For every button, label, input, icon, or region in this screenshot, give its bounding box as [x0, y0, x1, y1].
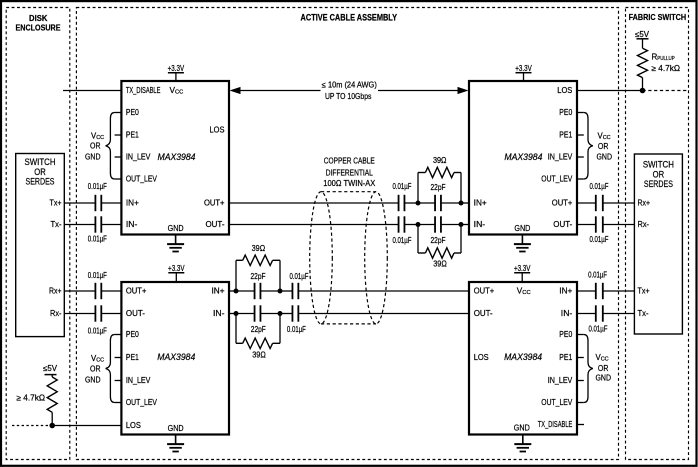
capacitor 0.01uF C7 (Rx+) [596, 195, 603, 211]
svg-text:22pF: 22pF [251, 325, 266, 334]
svg-text:IN+: IN+ [474, 199, 487, 208]
wire U4 OUT+ to C11 [299, 290, 470, 292]
U4 pin stub PE1 [577, 357, 584, 359]
wire U3 OUT+ to C15 [101, 290, 121, 292]
U4 pin stub PE0 [577, 334, 584, 336]
supply bar (top) [637, 38, 649, 40]
svg-text:+3.3V: +3.3V [515, 64, 532, 73]
copper cable bottom line [321, 323, 376, 325]
wire C1 to U1 IN+ [101, 202, 121, 204]
capacitor 22pF C13 [255, 283, 261, 299]
wire U1 OUT- to C4 [229, 224, 399, 226]
svg-text:OR: OR [34, 167, 46, 177]
svg-text:OR: OR [598, 142, 609, 151]
U2 pin stub OUT_LEV [577, 178, 584, 180]
U4 pin stub TX_DISABLE [577, 424, 584, 426]
svg-text:IN+: IN+ [212, 287, 225, 296]
node I junction [234, 311, 239, 316]
svg-text:39Ω: 39Ω [252, 244, 266, 253]
svg-text:OUT_LEV: OUT_LEV [541, 175, 572, 184]
svg-text:0.01µF: 0.01µF [588, 271, 607, 280]
wire U2 LOS to node E [577, 90, 643, 92]
wire C2 to U1 IN- [101, 224, 121, 226]
svg-text:OUT+: OUT+ [204, 199, 225, 208]
svg-text:GND: GND [168, 424, 184, 433]
wire TX_DISABLE input [63, 90, 121, 92]
label cable length [322, 81, 377, 101]
svg-text:SERDES: SERDES [644, 179, 673, 189]
svg-text:≥ 4.7kΩ: ≥ 4.7kΩ [17, 394, 46, 403]
ground U1 [167, 235, 184, 252]
label DISK ENCLOSURE [16, 13, 61, 32]
capacitor 0.01uF C11 (OUT+ line) [292, 283, 298, 299]
wire node D to U2 IN- [461, 224, 469, 226]
svg-text:IN_LEV: IN_LEV [548, 376, 573, 385]
U3 config brace [106, 335, 115, 403]
svg-text:+3.3V: +3.3V [168, 264, 185, 273]
U3 pin stub PE1 [115, 357, 122, 359]
wire Tx+ (left box to C1) [64, 202, 95, 204]
wire C14 to node I [236, 313, 254, 315]
svg-text:IN_LEV: IN_LEV [126, 376, 151, 385]
svg-text:0.01µF: 0.01µF [88, 235, 107, 244]
svg-text:SWITCH: SWITCH [643, 160, 674, 170]
wire node B to U2 IN+ [461, 202, 469, 204]
wire node F to C13 [261, 290, 280, 292]
U4 +3.3V supply [514, 264, 531, 282]
svg-text:OUT_LEV: OUT_LEV [541, 398, 572, 407]
svg-text:0.01µF: 0.01µF [590, 235, 609, 244]
svg-text:SWITCH: SWITCH [25, 157, 56, 167]
svg-text:+3.3V: +3.3V [168, 64, 185, 73]
svg-text:Tx+: Tx+ [50, 199, 62, 208]
U2 config brace [584, 113, 593, 180]
wire node A to C5 [418, 202, 435, 204]
svg-text:Tx-: Tx- [638, 309, 649, 318]
capacitor 0.01uF C4 (OUT- line) [399, 216, 405, 232]
svg-text:FABRIC SWITCH: FABRIC SWITCH [629, 12, 687, 22]
svg-text:PE0: PE0 [126, 108, 139, 117]
copper cable right ellipse [365, 192, 388, 324]
svg-text:GND: GND [168, 224, 184, 233]
svg-text:≤ 10m (24 AWG): ≤ 10m (24 AWG) [322, 81, 377, 90]
resistor R1 39ohm (across C5) [418, 167, 461, 203]
svg-text:0.01µF: 0.01µF [287, 325, 306, 334]
svg-text:0.01µF: 0.01µF [393, 182, 412, 191]
node B junction [459, 201, 464, 206]
svg-text:OR: OR [653, 169, 665, 179]
wire C15 to left box Rx+ [64, 290, 95, 292]
svg-text:GND: GND [514, 424, 530, 433]
svg-text:MAX3984: MAX3984 [157, 352, 195, 363]
U1 +3.3V supply [168, 64, 185, 81]
resistor R3 39ohm (across C13) [236, 255, 280, 291]
svg-text:Rx+: Rx+ [49, 287, 62, 296]
svg-text:PE0: PE0 [559, 330, 572, 339]
svg-text:ENCLOSURE: ENCLOSURE [16, 22, 61, 32]
svg-text:Tx+: Tx+ [638, 287, 650, 296]
capacitor 0.01uF C2 (Tx-) [95, 216, 101, 232]
svg-text:PE0: PE0 [559, 108, 572, 117]
svg-text:PE0: PE0 [126, 330, 139, 339]
U1 pin stub PE1 [115, 134, 122, 136]
ground U2 [514, 235, 531, 252]
svg-text:+3.3V: +3.3V [514, 264, 531, 273]
svg-text:OUT+: OUT+ [474, 287, 495, 296]
svg-text:Rx+: Rx+ [638, 199, 651, 208]
svg-text:PE1: PE1 [126, 131, 139, 140]
svg-text:OUT_LEV: OUT_LEV [126, 398, 157, 407]
svg-text:COPPER CABLE: COPPER CABLE [324, 157, 375, 166]
svg-text:0.01µF: 0.01µF [393, 236, 412, 245]
svg-text:PE1: PE1 [559, 131, 572, 140]
U3 pin stub IN_LEV [115, 380, 122, 382]
wire node I to U3 IN- [229, 313, 236, 315]
wire C3 to node A [405, 202, 419, 204]
wire C7 to right box Rx+ [603, 202, 635, 204]
capacitor 0.01uF C9 (Tx+) [596, 283, 603, 299]
wire C6 to node D [441, 224, 461, 226]
svg-text:PE1: PE1 [126, 353, 139, 362]
wire C8 to right box Rx- [603, 224, 635, 226]
svg-text:IN-: IN- [474, 220, 486, 229]
wire C11 to node F [280, 290, 292, 292]
svg-text:0.01µF: 0.01µF [290, 272, 309, 281]
resistor RPULLUP vertical [638, 39, 648, 91]
wire right box Tx+ to C9 [603, 290, 635, 292]
svg-text:OUT-: OUT- [553, 220, 572, 229]
capacitor 22pF C6 [435, 216, 441, 232]
svg-text:OUT-: OUT- [206, 220, 225, 229]
svg-text:IN-: IN- [213, 309, 225, 318]
wire C9 to U4 IN+ [577, 290, 596, 292]
capacitor 0.01uF C8 (Rx-) [596, 216, 603, 232]
svg-text:OR: OR [90, 142, 101, 151]
svg-text:LOS: LOS [210, 126, 225, 135]
wire C4 to node C [405, 224, 419, 226]
cable length arrow line [240, 90, 458, 92]
fabric switch boundary (dashed) [626, 8, 689, 460]
ground U4 [514, 435, 531, 452]
svg-text:0.01µF: 0.01µF [589, 325, 608, 334]
svg-text:≤5V: ≤5V [635, 30, 650, 39]
node H junction [278, 311, 283, 316]
wire right box Tx- to C10 [603, 313, 635, 315]
arrowhead right [458, 87, 469, 94]
supply bar (bottom) [45, 374, 57, 376]
node J junction [49, 423, 55, 429]
svg-text:≤5V: ≤5V [43, 364, 58, 373]
IC U3 MAX3984 (bottom-left) [121, 282, 229, 435]
capacitor 22pF C14 [255, 305, 261, 321]
wire Tx- (left box to C2) [64, 224, 95, 226]
svg-text:IN-: IN- [561, 309, 573, 318]
label copper cable [323, 157, 376, 188]
capacitor 0.01uF C10 (Tx-) [596, 305, 603, 321]
wire C10 to U4 IN- [577, 313, 596, 315]
capacitor 0.01uF C16 (Rx-) [95, 305, 101, 321]
U4 brace label VCC OR GND [596, 353, 612, 383]
svg-text:MAX3984: MAX3984 [158, 152, 196, 163]
left switch/serdes box [16, 154, 65, 337]
U2 +3.3V supply [515, 64, 532, 81]
svg-text:SERDES: SERDES [26, 177, 55, 187]
node D junction [459, 222, 464, 227]
svg-text:22pF: 22pF [431, 183, 446, 192]
U3 pin stub OUT_LEV [115, 402, 122, 404]
U4 pin stub OUT_LEV [577, 402, 584, 404]
wire U4 OUT- to C12 [299, 313, 470, 315]
svg-text:100Ω TWIN-AX: 100Ω TWIN-AX [323, 179, 376, 188]
ground U3 [167, 435, 184, 452]
svg-text:ACTIVE CABLE ASSEMBLY: ACTIVE CABLE ASSEMBLY [301, 12, 398, 22]
svg-text:39Ω: 39Ω [252, 351, 266, 360]
svg-text:OR: OR [90, 364, 101, 373]
U3 +3.3V supply [168, 264, 185, 282]
node E junction [640, 88, 646, 94]
svg-text:OR: OR [598, 364, 609, 373]
U3 pin stub PE0 [115, 334, 122, 336]
wire U1 OUT+ to C3 [229, 202, 399, 204]
capacitor 0.01uF C15 (Rx+) [95, 283, 101, 299]
U4 config brace [584, 335, 593, 403]
resistor R2 39ohm (across C6) [418, 225, 461, 259]
svg-text:Rx-: Rx- [50, 309, 62, 318]
svg-text:TX_DISABLE: TX_DISABLE [538, 420, 573, 429]
left box label [25, 157, 56, 187]
svg-text:OUT-: OUT- [474, 309, 493, 318]
svg-text:0.01µF: 0.01µF [88, 271, 107, 280]
U2 brace label VCC OR GND [597, 131, 613, 161]
svg-text:UP TO 10Gbps: UP TO 10Gbps [325, 92, 372, 101]
svg-text:IN-: IN- [126, 220, 138, 229]
IC U1 MAX3984 (top-left) [121, 81, 229, 235]
svg-text:DIFFERENTIAL: DIFFERENTIAL [326, 168, 373, 177]
svg-text:GND: GND [514, 224, 530, 233]
svg-text:IN+: IN+ [559, 287, 572, 296]
wire node C to C6 [418, 224, 435, 226]
wire U2 OUT+ to C7 [577, 202, 596, 204]
U4 pin stub IN_LEV [577, 380, 584, 382]
U1 pin stub IN_LEV [115, 156, 122, 158]
svg-text:Rx-: Rx- [638, 220, 650, 229]
wire U2 OUT- to C8 [577, 224, 596, 226]
U1 pin stub PE0 [115, 112, 122, 114]
arrowhead left [230, 87, 241, 94]
svg-text:≥ 4.7kΩ: ≥ 4.7kΩ [652, 64, 681, 73]
wire C16 to left box Rx- [64, 313, 95, 315]
U1 brace label VCC OR GND [85, 131, 104, 161]
capacitor 0.01uF C1 (Tx+) [95, 195, 101, 211]
wire node G to U3 IN+ [229, 290, 236, 292]
wire U3 OUT- to C16 [101, 313, 121, 315]
svg-text:0.01µF: 0.01µF [590, 182, 609, 191]
wire node E dashed to fabric [643, 90, 689, 92]
resistor >=4.7k vertical (disk side) [47, 375, 57, 426]
copper cable top line [321, 191, 376, 193]
U2 pin stub IN_LEV [577, 156, 584, 158]
wire node J dotted to disk host [12, 425, 52, 427]
svg-text:IN_LEV: IN_LEV [548, 153, 573, 162]
copper cable left ellipse [310, 192, 333, 324]
node C junction [416, 222, 421, 227]
svg-text:GND: GND [85, 152, 101, 161]
svg-text:39Ω: 39Ω [433, 259, 447, 268]
active cable assembly boundary (dashed) [76, 8, 618, 460]
svg-text:0.01µF: 0.01µF [88, 327, 107, 336]
wire C13 to node G [236, 290, 254, 292]
right switch/serdes box [634, 154, 682, 334]
RPULLUP label [652, 53, 681, 73]
IC U2 MAX3984 (top-right) [469, 81, 577, 235]
svg-text:PE1: PE1 [559, 353, 572, 362]
capacitor 0.01uF C12 (OUT- line) [292, 305, 298, 321]
svg-text:LOS: LOS [126, 421, 141, 430]
svg-text:TX_DISABLE: TX_DISABLE [126, 86, 161, 95]
svg-text:22pF: 22pF [431, 236, 446, 245]
capacitor 22pF C5 [435, 195, 441, 211]
wire C5 to node B [441, 202, 461, 204]
IC U4 MAX3984 (bottom-right) [469, 282, 577, 435]
U3 brace label VCC OR GND [85, 354, 104, 385]
svg-text:GND: GND [597, 152, 613, 161]
right box label [643, 160, 674, 189]
svg-text:LOS: LOS [474, 353, 489, 362]
svg-text:OUT-: OUT- [126, 309, 145, 318]
svg-text:OUT_LEV: OUT_LEV [126, 175, 157, 184]
U2 pin stub PE0 [577, 112, 584, 114]
svg-text:GND: GND [85, 376, 101, 385]
disk enclosure boundary (dashed) [6, 8, 70, 460]
node G junction [234, 289, 239, 294]
svg-text:MAX3984: MAX3984 [504, 152, 542, 163]
svg-text:LOS: LOS [557, 86, 572, 95]
resistor R4 39ohm (across C14) [236, 314, 280, 349]
U1 pin stub OUT_LEV [115, 178, 122, 180]
svg-text:Tx-: Tx- [51, 220, 62, 229]
svg-text:OUT+: OUT+ [552, 199, 573, 208]
svg-text:0.01µF: 0.01µF [88, 182, 107, 191]
capacitor 0.01uF C3 (OUT+ line) [399, 195, 405, 211]
svg-text:OUT+: OUT+ [126, 287, 147, 296]
svg-text:GND: GND [596, 374, 612, 383]
node F junction [278, 289, 283, 294]
svg-text:IN+: IN+ [126, 199, 139, 208]
svg-text:39Ω: 39Ω [433, 156, 447, 165]
U2 pin stub PE1 [577, 134, 584, 136]
svg-text:MAX3984: MAX3984 [504, 352, 542, 363]
svg-text:IN_LEV: IN_LEV [126, 153, 151, 162]
U1 config brace [106, 113, 115, 180]
svg-text:22pF: 22pF [251, 272, 266, 281]
wire U3 LOS to node J [52, 425, 121, 427]
node A junction [416, 201, 421, 206]
wire node H to C14 [261, 313, 280, 315]
wire C12 to node H [280, 313, 292, 315]
